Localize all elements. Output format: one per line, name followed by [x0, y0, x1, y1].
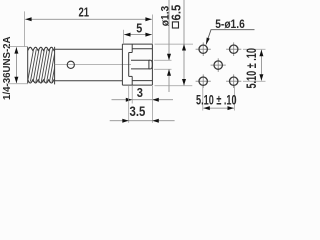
svg-text:3.5: 3.5: [130, 104, 146, 119]
dimension o1.3 lines: [154, 0, 172, 92]
block right face: [151, 44, 153, 85]
svg-text:5-ø1.6: 5-ø1.6: [215, 18, 245, 31]
block top edge: [122, 43, 152, 45]
hole center: [214, 61, 222, 69]
upper step verticals: [131, 44, 133, 52]
dimension 3: [112, 86, 174, 104]
lower step vertical: [131, 76, 133, 85]
hole top-right: [230, 45, 238, 53]
thread OD dimension: [6, 47, 28, 84]
inner face vertical: [128, 53, 130, 77]
thread crest zigzag bottom: [28, 80, 55, 83]
body outline: [55, 49, 123, 80]
dimension square 6.5 lines: [155, 0, 194, 86]
lower step short: [129, 75, 133, 77]
pin end cap: [149, 60, 152, 69]
svg-text:1/4-36UNS-2A: 1/4-36UNS-2A: [2, 36, 13, 100]
dimension 21: [25, 11, 152, 46]
hole top-left: [199, 45, 207, 53]
svg-text:3: 3: [137, 86, 143, 100]
right dimension 5.10 +-.10: [243, 49, 266, 81]
thread hatch lines: [28, 49, 55, 82]
flange / square body block: [122, 44, 152, 85]
axis line: [55, 64, 131, 66]
hole circle on body: [67, 61, 74, 68]
right view: 5 mounting holes with crosshairs: [196, 42, 242, 88]
svg-text:5.10 ± .10: 5.10 ± .10: [196, 93, 237, 109]
dimension 3.5: [110, 86, 175, 123]
block bottom edge: [122, 84, 152, 86]
center pin: [131, 60, 150, 69]
hole bottom-left: [199, 77, 207, 85]
flange left face: [121, 44, 123, 85]
thread section (1/4-36UNS-2A) hatched block: [28, 47, 55, 85]
hole bottom-right: [230, 77, 238, 85]
upper inner edge long: [132, 48, 152, 50]
dimension square 6.5 label: [169, 5, 183, 28]
thread crest zigzag top: [28, 47, 55, 50]
svg-text:21: 21: [79, 6, 90, 20]
upper step short: [129, 52, 133, 54]
svg-text:6.5: 6.5: [169, 5, 183, 21]
lower inner edge long: [132, 80, 152, 82]
svg-text:5: 5: [136, 22, 142, 36]
svg-text:5.10 ± .10: 5.10 ± .10: [244, 48, 259, 89]
extension line pin tip (21/5/3/3.5 shared): [151, 15, 153, 45]
bottom dimension 5.10 +-.10: [203, 86, 235, 111]
dimension 5: [124, 30, 152, 44]
